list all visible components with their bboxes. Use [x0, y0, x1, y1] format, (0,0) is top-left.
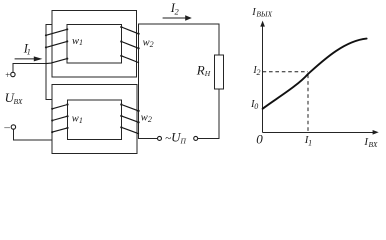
svg-text:IВЫХ: IВЫХ: [251, 7, 272, 18]
terminal plus circle: [11, 72, 15, 76]
transfer characteristic curve: [263, 39, 367, 109]
current I1 arrow: [15, 56, 43, 61]
junction dots winding w1 upper: [45, 28, 68, 60]
core 1 inner rectangle (window): [67, 24, 121, 63]
supply terminal right circle: [194, 136, 198, 140]
winding w2 side wire (upper to lower): [138, 24, 140, 138]
winding w1 upper turns: [46, 29, 67, 63]
resistor RH body: [214, 55, 223, 89]
wire input from plus terminal: [13, 64, 46, 73]
terminal minus circle: [11, 125, 15, 129]
winding w2 lower turns: [121, 105, 138, 134]
graph Y axis: [260, 21, 265, 133]
core 2 outer rectangle: [52, 85, 137, 154]
wire w1 upper to w1 lower: [46, 64, 52, 100]
supply terminal left circle: [158, 136, 162, 140]
winding w2 upper turns: [121, 27, 138, 63]
svg-text:w2: w2: [141, 113, 152, 124]
core 2 inner rectangle (window): [68, 100, 122, 139]
dashed line at I1: [307, 75, 309, 133]
core 1 outer rectangle: [52, 10, 137, 77]
wire minus terminal to w1 lower: [13, 129, 52, 140]
svg-text:0: 0: [256, 132, 263, 147]
winding w1 lower turns: [52, 105, 67, 133]
dashed level I2: [263, 71, 308, 73]
current I2 arrow: [163, 15, 192, 20]
wire w2 upper to load resistor: [139, 24, 219, 55]
svg-text:w1: w1: [72, 114, 83, 125]
graph X axis: [263, 130, 379, 135]
svg-text:w1: w1: [72, 36, 83, 47]
junction dots winding w2 upper: [120, 26, 139, 57]
junction dots winding w2 lower: [120, 103, 139, 128]
svg-text:–: –: [3, 121, 10, 133]
junction dots winding w1 lower: [51, 103, 68, 133]
winding w1 upper side wire: [46, 24, 52, 63]
wire resistor to supply terminal: [198, 89, 219, 139]
wire supply terminal to w2 lower: [139, 138, 158, 140]
svg-text:w2: w2: [143, 38, 154, 49]
svg-text:+: +: [5, 70, 11, 80]
